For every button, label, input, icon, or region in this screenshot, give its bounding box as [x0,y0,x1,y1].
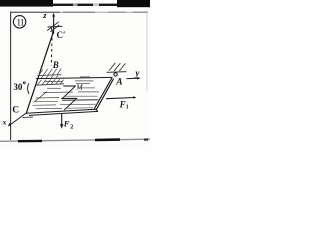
force F1 line with arrow [106,98,135,99]
svg-text:F: F [119,99,126,109]
scan line top-middle [52,4,118,6]
ceiling hatch ticks [47,22,59,31]
plate top edge [36,77,113,78]
moment zigzag at M [63,85,76,87]
dashed thread C' to B [50,38,53,66]
svg-text:2: 2 [70,125,73,131]
support at A ceiling [107,71,127,74]
plate shading lines [33,81,100,109]
support hatch ticks at A [109,63,115,71]
shadow mark below corner C [23,116,34,119]
svg-text:M: M [75,83,83,92]
scan band top-left [0,0,53,7]
faint crease line left of M [35,92,47,102]
force F2 arrow down [61,114,63,127]
frame top border [10,11,148,13]
plate bottom edge double line [26,109,95,113]
svg-text:C′: C′ [57,30,66,40]
frame left border [10,12,12,140]
svg-text:30: 30 [13,82,23,92]
frame right border [146,12,148,91]
angle arc 30 [28,83,30,94]
svg-text:A: A [115,78,122,88]
pin ring at A [114,73,117,76]
svg-text:F: F [63,118,70,128]
short link into C' [51,27,53,34]
scan line bottom [0,139,150,141]
y axis arrow [127,77,139,79]
svg-text:C: C [12,105,19,115]
z axis line with arrow [53,14,55,34]
svg-text:1: 1 [126,104,129,110]
svg-text:z: z [42,10,47,20]
wall hatch row2 short ticks [41,76,44,79]
scan band top-right [117,0,150,7]
svg-text:B: B [52,60,59,70]
rod C C' [26,32,54,115]
ceiling at C' [48,25,63,28]
x axis line [9,113,26,125]
svg-text:11: 11 [16,18,24,28]
scan dash above edge [80,76,90,78]
plate right edge thick [94,78,112,109]
wall hatch row1 above plate edge B [38,74,62,77]
figure number badge circle 11 [13,16,25,28]
svg-text:x: x [2,118,7,127]
wall hatch row3 at corner B [36,84,64,85]
